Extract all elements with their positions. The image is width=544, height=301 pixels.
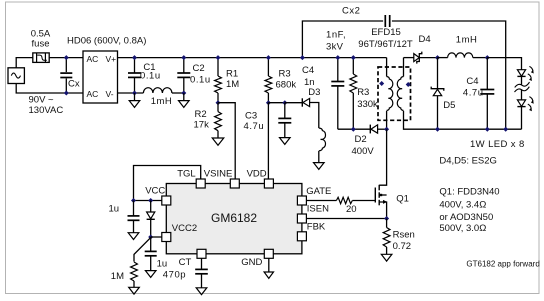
label Q1 part numbers	[439, 187, 499, 235]
label R3 330k	[357, 87, 378, 110]
node VCC 1	[131, 198, 136, 203]
pin GATE	[297, 196, 306, 205]
label VCC	[145, 186, 165, 197]
svg-text:C4: C4	[466, 76, 478, 87]
transistor Q1 MOSFET	[375, 129, 387, 218]
node R3 330k bottom	[351, 127, 356, 132]
svg-text:0.1u: 0.1u	[190, 74, 211, 85]
node R3 top	[266, 55, 271, 60]
ground at C3	[280, 138, 291, 145]
label R1 1M	[226, 69, 239, 90]
svg-text:GND: GND	[241, 257, 262, 268]
label D4 D5 ES2G	[439, 156, 497, 167]
node D4 cathode	[435, 55, 440, 60]
label 1mH	[151, 96, 173, 107]
capacitor C1	[128, 58, 141, 93]
wire Cx2 left leg	[302, 21, 383, 58]
svg-text:VSINE: VSINE	[204, 169, 233, 180]
transformer secondary winding	[397, 58, 521, 130]
label D3	[308, 87, 320, 98]
label C4 4.7u	[463, 76, 484, 99]
svg-text:D4,D5: ES2G: D4,D5: ES2G	[439, 156, 497, 167]
ground at C1	[129, 93, 140, 107]
svg-text:EFD15: EFD15	[371, 27, 401, 38]
pin FBK	[297, 232, 306, 241]
wire V- rail right	[172, 92, 184, 94]
svg-text:1mH: 1mH	[151, 96, 173, 107]
wire VCC2 node to pin	[151, 236, 162, 238]
resistor 20 gate	[306, 197, 375, 203]
svg-text:GM6182: GM6182	[211, 211, 257, 225]
resistor 1M bias	[131, 262, 138, 287]
svg-text:R3: R3	[279, 69, 291, 80]
svg-text:4.7u: 4.7u	[244, 121, 265, 132]
svg-text:D3: D3	[308, 87, 320, 98]
ground at VCC cap	[128, 233, 139, 240]
svg-text:AC: AC	[87, 89, 99, 99]
label R3 680k	[276, 69, 297, 91]
svg-text:GT6182 app forward: GT6182 app forward	[466, 260, 539, 269]
wire TGL to VCC	[134, 166, 201, 201]
fuse F1 0.5A	[33, 53, 49, 63]
svg-text:470p: 470p	[163, 270, 186, 281]
svg-text:FBK: FBK	[307, 222, 326, 233]
label Cx	[68, 78, 80, 89]
label Cx2	[342, 5, 360, 16]
pin TGL	[196, 179, 205, 188]
svg-text:C4: C4	[302, 65, 314, 76]
ground at 1M	[129, 287, 140, 294]
label 1M bias	[111, 271, 124, 282]
svg-text:20: 20	[346, 204, 357, 215]
svg-text:1W LED x 8: 1W LED x 8	[470, 139, 525, 150]
svg-text:D5: D5	[443, 100, 455, 111]
capacitor 1u VCC2	[145, 237, 157, 271]
label 20	[346, 204, 357, 215]
label 90V~130VAC	[29, 95, 64, 117]
node C4 output bottom	[485, 127, 490, 132]
node fuse-Cx junction	[64, 55, 69, 60]
LED string D6	[517, 66, 533, 100]
svg-text:0.72: 0.72	[393, 241, 412, 252]
label D4	[419, 34, 431, 45]
wire V- rail	[118, 92, 144, 94]
resistor Rsen 0.72	[383, 219, 390, 255]
wire R1R2 to VSINE	[218, 103, 235, 179]
label GT6182 app forward	[466, 260, 539, 269]
svg-text:330k: 330k	[357, 99, 378, 110]
label EFD15 96T/96T/12T	[358, 27, 413, 50]
svg-text:400V: 400V	[352, 146, 375, 157]
capacitor CT 470p	[195, 258, 208, 288]
label VCC2 pin	[172, 223, 197, 234]
node VCC 2	[148, 198, 153, 203]
label D2 400V	[352, 134, 375, 157]
label fuse 0.5A	[31, 28, 51, 49]
LED string D7	[517, 97, 533, 130]
wire VDD node to C3	[268, 102, 284, 104]
capacitor C4 1n snubber	[331, 58, 344, 130]
svg-text:V+: V+	[106, 54, 117, 64]
label TGL	[177, 169, 195, 180]
AC source V1 90V-130VAC	[8, 68, 24, 84]
node C3 junction	[282, 100, 287, 105]
pin VDD	[264, 179, 273, 188]
label VDD	[247, 169, 267, 180]
wire C3 to D3	[285, 102, 303, 104]
pin VSINE	[230, 179, 239, 188]
node primary bottom	[384, 127, 389, 132]
label C2 0.1u	[190, 63, 211, 86]
label GND	[241, 257, 262, 268]
wire AC bottom	[16, 84, 83, 94]
ground at GND pin	[264, 258, 273, 278]
ground at VCC2 cap	[145, 271, 156, 278]
label 1nF 3kV	[326, 30, 346, 53]
label HD06 (600V, 0.8A)	[67, 35, 146, 46]
svg-text:1mH: 1mH	[456, 35, 478, 46]
svg-text:HD06 (600V, 0.8A): HD06 (600V, 0.8A)	[67, 35, 146, 46]
label 1u VCC	[109, 203, 120, 214]
svg-text:1u: 1u	[109, 203, 120, 214]
node Cx2 junction	[300, 55, 305, 60]
svg-text:D4: D4	[419, 34, 431, 45]
label 1W LED x 8	[470, 139, 525, 150]
node C2 bottom	[181, 91, 186, 96]
label VSINE	[204, 169, 233, 180]
pin GND	[264, 249, 273, 258]
svg-text:Rsen: Rsen	[393, 229, 415, 240]
svg-text:500V, 3.0Ω: 500V, 3.0Ω	[439, 223, 486, 234]
wire ISEN to Rsen	[306, 218, 386, 220]
diode D5 freewheel	[431, 58, 444, 130]
ground at R2	[212, 138, 224, 145]
transformer primary winding	[387, 58, 393, 130]
pin VCC2	[162, 233, 171, 242]
svg-text:VDD: VDD	[247, 169, 267, 180]
LED break squiggle	[515, 82, 530, 92]
svg-text:680k: 680k	[276, 80, 297, 91]
svg-text:or AOD3N50: or AOD3N50	[439, 212, 493, 223]
pin CT	[197, 249, 206, 258]
primary phase dot	[379, 81, 384, 86]
svg-text:Q1: FDD3N40: Q1: FDD3N40	[439, 187, 499, 198]
label 1u VCC2	[157, 258, 168, 269]
svg-text:3kV: 3kV	[326, 42, 344, 53]
label Rsen 0.72	[393, 229, 415, 251]
capacitor C4 4.7u output	[480, 58, 494, 130]
secondary phase dot	[406, 82, 411, 87]
diode VCC to VCC2	[147, 201, 155, 238]
svg-text:Cx2: Cx2	[342, 5, 360, 16]
wire snubber bottom	[338, 128, 371, 130]
svg-text:1nF,: 1nF,	[326, 30, 346, 41]
pin ISEN	[297, 214, 306, 223]
label GATE	[306, 186, 331, 197]
wire top rail V+	[118, 57, 387, 59]
diode D2 400V	[370, 125, 386, 134]
node R1 top	[216, 55, 221, 60]
svg-text:R3: R3	[357, 87, 369, 98]
svg-text:Q1: Q1	[396, 194, 409, 205]
wire fuse to bridge	[49, 57, 83, 59]
svg-text:90V ~: 90V ~	[29, 95, 55, 106]
resistor R2 17k	[215, 103, 222, 138]
ground at C2	[179, 93, 190, 107]
svg-text:130VAC: 130VAC	[29, 105, 64, 116]
node C1 top	[132, 55, 137, 60]
label R2 17k	[194, 109, 210, 130]
node Cx2 bottom rail	[503, 127, 508, 132]
label ISEN	[307, 204, 329, 215]
diode D3	[302, 98, 309, 106]
inductor L1 1mH	[143, 88, 172, 93]
bridge rectifier HD06	[83, 51, 118, 103]
svg-text:C2: C2	[193, 63, 205, 74]
svg-text:4.7u: 4.7u	[463, 87, 484, 98]
label C4 1n	[302, 65, 315, 88]
pin VCC	[162, 196, 171, 205]
ground at Rsen	[381, 254, 392, 261]
node R1-R2 junction	[216, 100, 221, 105]
inductor L2 1mH output	[438, 53, 488, 58]
capacitor C2	[177, 58, 190, 93]
node R3 330k top	[351, 55, 356, 60]
resistor R3 680k	[265, 58, 272, 103]
svg-text:VCC: VCC	[145, 186, 165, 197]
resistor R3 330k snubber	[350, 58, 357, 130]
capacitor 1u VCC	[128, 201, 140, 233]
svg-text:VCC2: VCC2	[172, 223, 197, 234]
capacitor C3 4.7u	[278, 103, 291, 138]
label C1 0.1u	[140, 62, 161, 82]
label FBK	[307, 222, 326, 233]
wire aux to ground	[318, 151, 320, 163]
svg-text:1n: 1n	[304, 77, 315, 88]
capacitor Cx2 1nF 3kV	[385, 15, 389, 27]
ground at CT	[196, 288, 207, 295]
wire VCC2 to 1M	[134, 238, 151, 262]
svg-text:V-: V-	[106, 89, 114, 99]
svg-text:fuse: fuse	[32, 38, 50, 49]
label C3 4.7u	[244, 111, 265, 132]
label 470p	[163, 270, 186, 281]
svg-text:96T/96T/12T: 96T/96T/12T	[358, 39, 413, 50]
ground at aux winding	[314, 163, 325, 170]
op-amp U1 GM6182 body	[166, 184, 302, 254]
wire D3 to aux winding	[310, 103, 319, 129]
svg-text:D2: D2	[355, 134, 367, 145]
wire Cx2 right leg	[392, 21, 506, 129]
label D5	[443, 100, 455, 111]
diode D4	[404, 52, 438, 64]
node ISEN junction	[384, 216, 389, 221]
wire AC top to fuse	[16, 58, 33, 68]
transformer T1 EFD15 dashed box	[378, 67, 411, 120]
node D5 bottom	[435, 127, 440, 132]
node L2 right	[485, 55, 490, 60]
wire top rail to LED	[487, 58, 521, 70]
wire VCC node to pin	[134, 200, 162, 202]
svg-text:17k: 17k	[194, 120, 210, 131]
svg-text:1M: 1M	[111, 271, 124, 282]
node C2 top	[181, 55, 186, 60]
svg-text:0.1u: 0.1u	[140, 71, 161, 82]
label CT	[179, 257, 192, 268]
node C4 snubber top	[335, 55, 340, 60]
node VCC2 junction	[148, 235, 153, 240]
capacitor Cx	[60, 58, 72, 93]
wire VDD node down	[267, 103, 269, 179]
label Q1	[396, 194, 409, 205]
svg-text:AC: AC	[87, 54, 99, 64]
resistor R1 1M	[215, 58, 222, 103]
svg-text:1u: 1u	[157, 258, 168, 269]
svg-text:400V, 3.4Ω: 400V, 3.4Ω	[439, 199, 486, 210]
node VDD junction	[266, 100, 271, 105]
svg-text:TGL: TGL	[177, 169, 195, 180]
svg-text:ISEN: ISEN	[307, 204, 329, 215]
label 1mH output	[456, 35, 478, 46]
svg-text:CT: CT	[179, 257, 192, 268]
node C1 bottom	[132, 91, 137, 96]
node Cx bottom junction	[64, 91, 69, 96]
svg-text:1M: 1M	[226, 79, 239, 90]
svg-text:GATE: GATE	[306, 186, 331, 197]
svg-text:Cx: Cx	[68, 78, 80, 89]
aux winding	[319, 128, 326, 151]
